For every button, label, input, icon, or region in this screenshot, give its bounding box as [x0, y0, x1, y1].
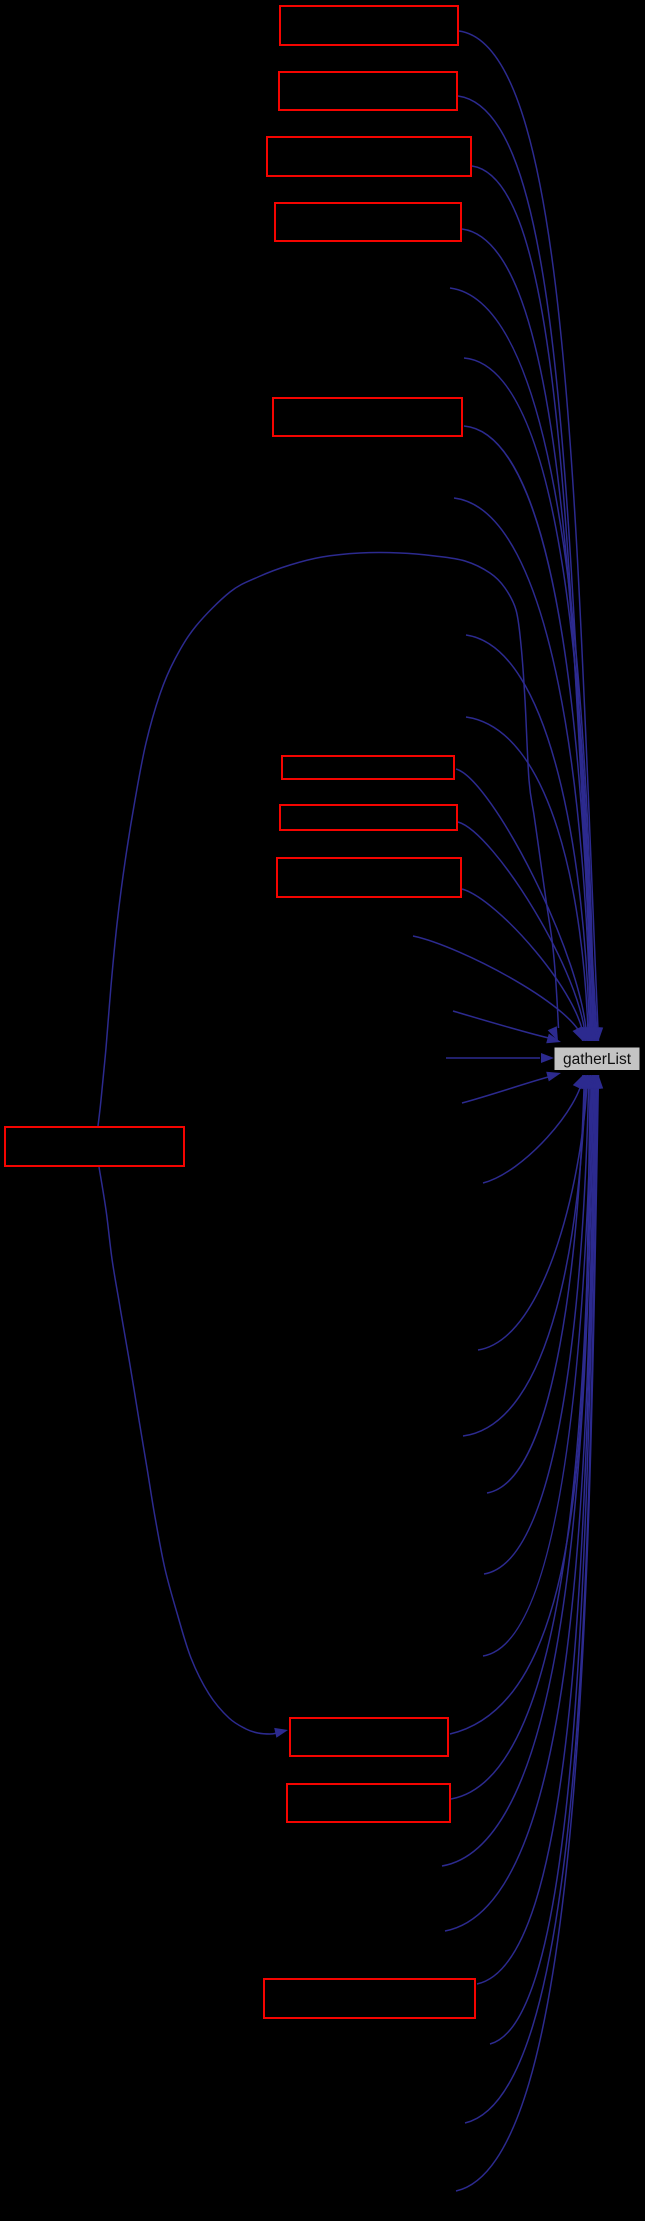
svg-text:gatherList: gatherList	[563, 1051, 632, 1068]
